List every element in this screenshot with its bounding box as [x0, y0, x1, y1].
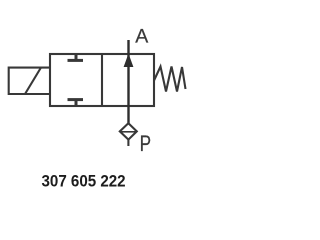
solenoid actuator Y1 box: [9, 68, 51, 94]
solenoid diagonal stroke: [25, 68, 41, 95]
svg-text:A: A: [135, 26, 148, 48]
check valve seat line: [121, 131, 137, 133]
return spring: [154, 67, 186, 92]
blocked port T top (closed position): [68, 54, 84, 60]
blocked port T bottom (closed position): [68, 100, 84, 106]
svg-text:P: P: [140, 132, 151, 157]
flow path wire A to P: [127, 40, 129, 124]
port P stub wire: [127, 140, 129, 146]
flow arrowhead (open position): [124, 54, 134, 68]
check valve diamond: [120, 123, 137, 139]
valve position divider: [101, 54, 103, 106]
valve body outline: [50, 54, 154, 106]
svg-text:307 605 222: 307 605 222: [42, 172, 126, 191]
